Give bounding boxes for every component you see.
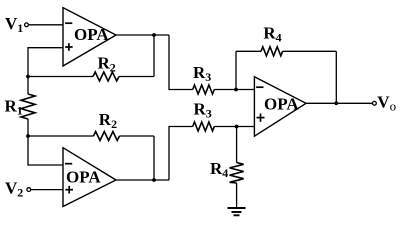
- node U1 output junction: [152, 33, 156, 37]
- op-amp U1 minus sign: [65, 22, 72, 24]
- node U3 output junction: [334, 101, 338, 105]
- svg-text:OPA: OPA: [264, 95, 299, 114]
- wire U1 output down to R3 top rail: [169, 35, 193, 90]
- resistor R2 (bottom feedback): [94, 132, 120, 141]
- resistor R1 (vertical on left rail): [21, 94, 35, 119]
- op-amp U1 plus sign: [65, 43, 73, 51]
- terminal V2 circle: [27, 188, 31, 192]
- resistor R4 (feedback): [261, 47, 283, 56]
- op-amp U2 (bottom left OPA): [63, 148, 116, 207]
- wire U2 output: [116, 179, 169, 181]
- wire R4 bottom to ground: [236, 183, 238, 208]
- svg-text:OPA: OPA: [74, 25, 109, 44]
- resistor R4 (to ground, vertical): [230, 163, 244, 184]
- wire U1 output node down to R2 top: [153, 35, 155, 77]
- wire left rail R1 to U2 minus input: [28, 119, 63, 165]
- wire R4 feedback top right segment: [283, 50, 337, 52]
- wire R3 top to U3 minus input: [214, 89, 254, 91]
- wire U2 output up to R3 bottom rail: [169, 127, 193, 181]
- wire right segment of R2 bottom: [120, 135, 155, 137]
- wire left segment of R2 bottom: [28, 135, 94, 137]
- op-amp U3 plus sign: [257, 114, 265, 122]
- resistor R3 (top): [193, 85, 215, 94]
- node R3 bottom / R4 ground junction: [235, 125, 239, 129]
- resistor R3 (bottom): [193, 122, 215, 131]
- wire R4 feedback right vertical: [335, 51, 337, 103]
- op-amp U2 plus sign: [65, 186, 73, 194]
- op-amp U3 (right OPA): [254, 77, 306, 137]
- svg-text:OPA: OPA: [66, 168, 101, 187]
- wire R3 bottom to U3 plus input: [214, 126, 254, 128]
- node U2 output junction: [152, 178, 156, 182]
- wire R4 feedback left vertical: [235, 51, 237, 89]
- node R3 top / R4 feedback junction: [234, 88, 238, 92]
- wire U3 output: [306, 102, 372, 104]
- resistor R2 (top feedback): [93, 72, 119, 81]
- node junction left rail top: [26, 75, 30, 79]
- op-amp U2 minus sign: [65, 163, 72, 165]
- op-amp U3 minus sign: [256, 86, 263, 88]
- terminal V1 circle: [25, 23, 29, 27]
- wire R4 feedback top left segment: [236, 50, 261, 52]
- wire U2 output node up to R2 bottom: [153, 136, 155, 180]
- ground: [228, 208, 246, 215]
- wire V2 to U2 plus input: [31, 189, 63, 191]
- wire left segment of R2 top: [28, 76, 93, 78]
- wire U1 plus input to left rail: [28, 48, 63, 94]
- terminal Vo circle: [373, 101, 377, 105]
- wire V1 to U1 minus input: [29, 24, 63, 26]
- wire R4 ground vertical top: [236, 127, 238, 163]
- wire U1 output: [116, 34, 169, 36]
- node junction left rail bottom: [26, 134, 30, 138]
- op-amp U1 (top left OPA): [63, 8, 116, 66]
- wire right segment of R2 top: [119, 76, 154, 78]
